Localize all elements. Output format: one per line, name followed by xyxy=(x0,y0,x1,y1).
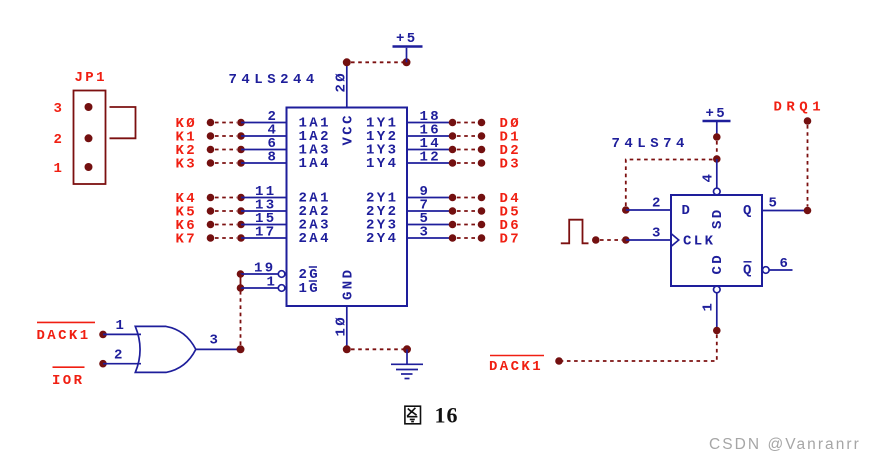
wire DACK1 to OR gate input 1 xyxy=(103,318,141,334)
svg-text:DACK1: DACK1 xyxy=(489,359,543,375)
net K1 wire to pin 4 xyxy=(176,123,287,146)
U3 pin 6 Qbar wire with bubble xyxy=(763,256,793,273)
U1 pin 1 1G enable wire with bubble xyxy=(237,275,285,292)
svg-text:K3: K3 xyxy=(176,157,198,173)
svg-text:CD: CD xyxy=(710,253,726,275)
dashed net DRQ1 to Q xyxy=(807,125,809,207)
node Q / DRQ1 xyxy=(804,207,812,215)
+5 power symbol (above U3) xyxy=(703,106,731,141)
svg-text:3: 3 xyxy=(210,333,221,349)
svg-text:K7: K7 xyxy=(176,232,198,248)
net D5 wire from pin 7 xyxy=(407,198,521,221)
svg-text:1: 1 xyxy=(701,301,717,312)
node at +5 stub xyxy=(403,58,411,66)
svg-text:3: 3 xyxy=(652,226,663,242)
U1 inside pin name 1A1..1A4 2A1..2A4 xyxy=(299,116,331,248)
U1 pin 19 2G enable wire with bubble xyxy=(237,261,285,278)
U1 pin 10 GND wire xyxy=(334,306,351,353)
net D0 wire from pin 18 xyxy=(407,109,521,132)
svg-text:2Y4: 2Y4 xyxy=(366,231,398,247)
svg-text:3: 3 xyxy=(420,225,431,241)
svg-text:17: 17 xyxy=(255,225,277,241)
node D input xyxy=(622,206,630,214)
net DRQ1 label xyxy=(774,100,826,125)
svg-text:1: 1 xyxy=(54,161,65,177)
caption figure 16 (drawn CJK glyph) xyxy=(405,406,421,424)
net DACK1 (right) label with overbar xyxy=(489,356,544,376)
node CLK input xyxy=(622,236,630,244)
svg-text:SD: SD xyxy=(710,207,726,229)
svg-text:Q: Q xyxy=(743,263,754,279)
IC U3 74LS74 body xyxy=(671,195,762,286)
ground symbol xyxy=(391,349,423,378)
IC U1 74LS244 body xyxy=(287,108,408,307)
OR gate output wire pin 3 xyxy=(196,333,241,350)
svg-text:5: 5 xyxy=(769,196,780,212)
U3 pin 4 SD wire with bubble xyxy=(701,159,721,195)
svg-text:DRQ1: DRQ1 xyxy=(774,100,826,116)
jumper wire JP1 pin3-pin2 xyxy=(110,107,136,138)
svg-text:IOR: IOR xyxy=(52,373,84,389)
net D2 wire from pin 14 xyxy=(407,136,521,159)
svg-text:DACK1: DACK1 xyxy=(37,328,91,344)
U3 pin 2 D wire xyxy=(626,196,671,212)
U1 inside pin name 2G 1G with overbars xyxy=(299,267,321,297)
dashed net from enable junction to OR gate output node xyxy=(240,291,242,346)
svg-text:2: 2 xyxy=(114,348,125,364)
+5 power symbol (above U1) xyxy=(393,31,423,62)
svg-text:JP1: JP1 xyxy=(75,70,107,86)
svg-text:D7: D7 xyxy=(500,232,522,248)
svg-text:16: 16 xyxy=(435,403,459,428)
U1 pin 20 VCC wire xyxy=(334,58,351,107)
svg-text:1: 1 xyxy=(116,318,127,334)
node DACK1 right xyxy=(555,357,563,365)
svg-text:8: 8 xyxy=(268,150,279,166)
wire junction link between pins 19 and 1 xyxy=(240,274,242,288)
dashed net pulse to CLK xyxy=(600,239,622,241)
svg-text:2: 2 xyxy=(54,132,65,148)
OR gate U2 xyxy=(135,326,196,372)
dashed net +5 to SD node xyxy=(716,141,718,156)
U3 pin 5 Q output wire xyxy=(762,196,808,212)
svg-text:1Ø: 1Ø xyxy=(334,315,350,337)
node SD net xyxy=(713,155,721,163)
node at ground stem xyxy=(403,345,411,353)
svg-text:1A4: 1A4 xyxy=(299,156,331,172)
U3 pin 3 CLK wire xyxy=(626,226,671,242)
svg-text:1G: 1G xyxy=(299,281,321,297)
net D7 wire from pin 3 xyxy=(407,225,521,248)
svg-text:+5: +5 xyxy=(706,106,728,122)
U3 inside labels D CLK SD CD Q Qbar xyxy=(682,203,754,279)
svg-text:74LS244: 74LS244 xyxy=(229,72,319,88)
dashed net VCC to +5 xyxy=(351,61,403,63)
net D1 wire from pin 16 xyxy=(407,123,521,146)
svg-text:2: 2 xyxy=(652,196,663,212)
svg-text:CLK: CLK xyxy=(683,234,715,250)
svg-text:1: 1 xyxy=(267,275,278,291)
svg-text:1Y4: 1Y4 xyxy=(366,156,398,172)
connector JP1 xyxy=(54,70,107,184)
svg-text:+5: +5 xyxy=(396,31,418,47)
svg-text:2Ø: 2Ø xyxy=(334,71,350,93)
U3 CLK edge triangle xyxy=(671,234,679,247)
svg-text:74LS74: 74LS74 xyxy=(612,136,689,152)
svg-text:D: D xyxy=(682,203,693,219)
svg-text:3: 3 xyxy=(54,101,65,117)
svg-text:12: 12 xyxy=(420,150,442,166)
pulse source symbol xyxy=(561,220,589,244)
U3 pin 1 CD wire with bubble xyxy=(701,286,721,330)
svg-text:6: 6 xyxy=(780,256,791,272)
net K5 wire to pin 13 xyxy=(176,198,287,221)
svg-text:VCC: VCC xyxy=(341,113,357,145)
wire IOR to OR gate input 2 xyxy=(103,348,141,364)
net D4 wire from pin 9 xyxy=(407,184,521,207)
svg-text:D3: D3 xyxy=(500,157,522,173)
dashed net SD node to D input xyxy=(626,160,713,207)
net K2 wire to pin 6 xyxy=(176,136,287,159)
net DACK1 (left) label with overbar xyxy=(37,322,107,344)
node pulse output xyxy=(592,236,600,244)
svg-text:GND: GND xyxy=(341,268,357,300)
node OR output / enable net junction xyxy=(237,345,245,353)
dashed net GND to ground xyxy=(351,348,404,350)
dashed net CD to DACK1 (right) xyxy=(562,335,717,362)
net K6 wire to pin 15 xyxy=(176,211,287,234)
net IOR label with overbar xyxy=(52,360,107,389)
node CD net xyxy=(713,327,721,335)
net K4 wire to pin 11 xyxy=(176,184,287,207)
svg-text:2A4: 2A4 xyxy=(299,231,331,247)
svg-text:CSDN @Vanranrr: CSDN @Vanranrr xyxy=(709,436,861,453)
net K7 wire to pin 17 xyxy=(176,225,287,248)
svg-text:Q: Q xyxy=(743,203,754,219)
net D3 wire from pin 12 xyxy=(407,150,521,173)
net K0 wire to pin 2 xyxy=(176,109,287,132)
svg-text:4: 4 xyxy=(701,172,717,183)
U1 inside pin name 1Y1..1Y4 2Y1..2Y4 xyxy=(366,116,398,248)
net K3 wire to pin 8 xyxy=(176,150,287,173)
net D6 wire from pin 5 xyxy=(407,211,521,234)
